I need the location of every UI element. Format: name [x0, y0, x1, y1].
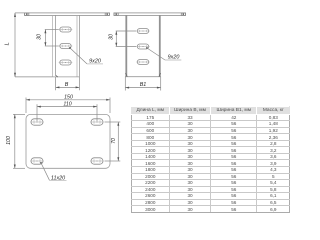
flange F1 top plate	[25, 13, 110, 16]
slot S3 (view1 bottom)	[59, 60, 73, 65]
flange F1 left end cap	[25, 13, 29, 16]
flange F2 right end cap	[181, 13, 185, 16]
plate P2 right edge (thick)	[159, 15, 161, 76]
plate P1 left outer edge	[51, 15, 53, 77]
leader 11x20 (plan)	[40, 162, 66, 180]
svg-text:150: 150	[64, 95, 73, 101]
svg-text:9х20: 9х20	[168, 55, 180, 61]
plate P1 right outer edge	[79, 15, 81, 77]
plate P1 left fold line	[55, 15, 57, 75]
slot S1 (view1 top)	[59, 27, 73, 32]
data table	[131, 106, 291, 213]
svg-text:11х20: 11х20	[51, 175, 65, 181]
dimension 70 (plan right)	[105, 122, 121, 161]
dimension L arrows	[14, 13, 16, 17]
slot S8 (plan top-right)	[90, 119, 104, 125]
leader 9x20 (view2)	[146, 47, 181, 60]
svg-text:110: 110	[63, 101, 71, 107]
plate P1 right fold line	[76, 15, 78, 77]
slot S6 (view2 bottom)	[136, 60, 150, 65]
svg-text:30: 30	[108, 34, 114, 40]
svg-text:L: L	[5, 42, 11, 45]
svg-text:В1: В1	[140, 82, 147, 88]
slot S4 (view2 top)	[136, 29, 150, 34]
svg-text:100: 100	[6, 136, 12, 145]
svg-text:В: В	[65, 82, 69, 88]
plate P2 bottom edge	[125, 76, 161, 78]
plate P1 bottom edge	[52, 76, 79, 78]
dimension 110 (plan)	[37, 104, 97, 121]
plate P3 outline	[26, 114, 110, 168]
dimension 30 (view2)	[116, 31, 137, 47]
dimension B (view1)	[56, 77, 80, 90]
dimension 30 (view1)	[45, 30, 59, 47]
leader 9x20 (view1)	[69, 47, 103, 64]
plate P2 left edge (thick)	[125, 15, 127, 76]
flange F1 right end cap	[105, 13, 109, 16]
dimension B1 (view2)	[125, 77, 160, 91]
svg-text:30: 30	[36, 34, 42, 40]
flange F2 top plate	[114, 13, 186, 16]
slot S9 (plan bottom-left)	[30, 158, 44, 164]
plate P1 bottom-left chamfer	[56, 75, 58, 77]
slot S5 (view2 middle)	[136, 44, 150, 49]
svg-text:9х20: 9х20	[89, 59, 101, 65]
slot S10 (plan bottom-right)	[90, 158, 104, 164]
slot S7 (plan top-left)	[30, 119, 44, 125]
dimension 100 (plan left)	[13, 114, 25, 168]
slot S2 (view1 middle)	[59, 44, 73, 49]
plate P2 bottom corner marks	[126, 73, 128, 77]
flange F2 left end cap	[114, 13, 118, 16]
dimension L line	[15, 13, 52, 77]
svg-text:70: 70	[111, 138, 117, 144]
dimension 150 (plan)	[26, 98, 110, 114]
